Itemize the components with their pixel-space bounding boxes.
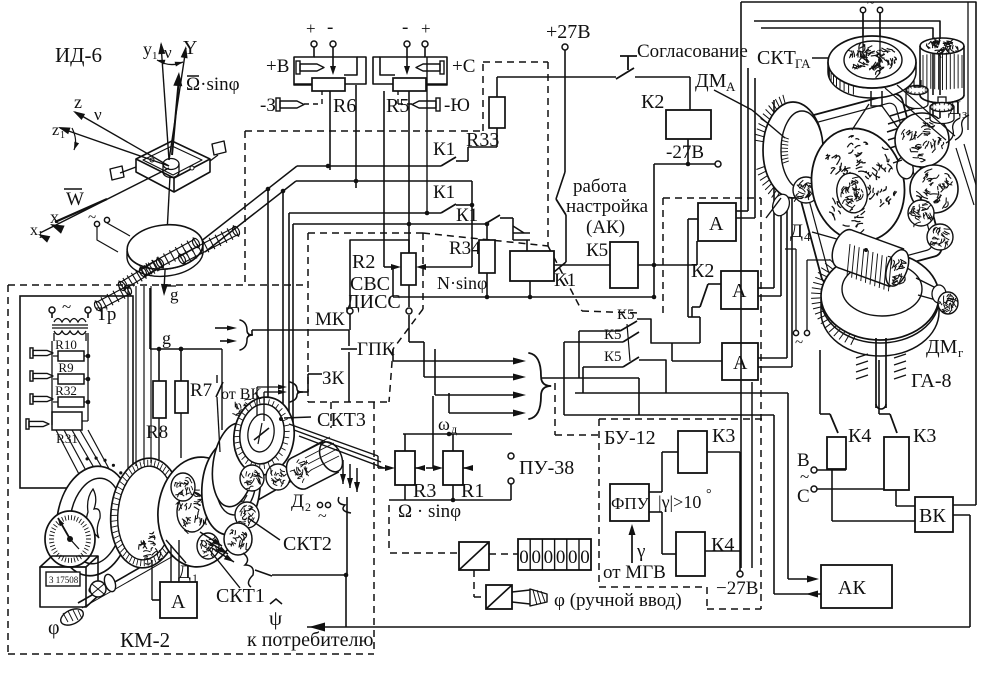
svg-text:ω: ω bbox=[438, 414, 450, 434]
svg-text:АК: АК bbox=[838, 577, 866, 599]
svg-text:+В: +В bbox=[266, 56, 289, 77]
svg-text:φ: φ bbox=[48, 617, 60, 639]
svg-text:x: x bbox=[30, 222, 38, 239]
svg-text:ЗК: ЗК bbox=[322, 368, 345, 389]
svg-text:Д: Д bbox=[948, 98, 961, 119]
svg-text:Д: Д bbox=[291, 491, 304, 512]
svg-text:Y: Y bbox=[183, 37, 197, 59]
svg-text:з: з bbox=[962, 106, 967, 121]
svg-text:+: + bbox=[306, 19, 316, 38]
svg-text:z: z bbox=[74, 92, 82, 112]
svg-text:2: 2 bbox=[305, 500, 311, 514]
svg-text:СКТ2: СКТ2 bbox=[283, 533, 332, 555]
svg-text:0: 0 bbox=[556, 547, 566, 568]
svg-text:ГПК: ГПК bbox=[357, 339, 395, 360]
svg-text:работа: работа bbox=[573, 176, 627, 197]
svg-text:А: А bbox=[732, 280, 747, 302]
svg-text:1: 1 bbox=[38, 230, 43, 241]
svg-text:−27В: −27В bbox=[716, 578, 758, 599]
svg-text:g: g bbox=[162, 328, 171, 348]
svg-text:КМ-2: КМ-2 bbox=[120, 628, 170, 652]
svg-text:W: W bbox=[66, 189, 84, 210]
svg-text:R10: R10 bbox=[55, 337, 77, 352]
svg-text:g: g bbox=[170, 285, 179, 304]
svg-text:R1: R1 bbox=[461, 480, 484, 502]
svg-text:N·sinφ: N·sinφ bbox=[437, 273, 487, 293]
svg-text:φ (ручной ввод): φ (ручной ввод) bbox=[554, 590, 682, 611]
svg-text:К2: К2 bbox=[691, 260, 714, 282]
svg-text:ГА: ГА bbox=[795, 56, 811, 71]
svg-text:R3: R3 bbox=[413, 480, 436, 502]
svg-text:Согласование: Согласование bbox=[637, 41, 748, 62]
svg-text:x: x bbox=[50, 207, 59, 227]
svg-text:R8: R8 bbox=[146, 422, 168, 443]
svg-text:СКТ3: СКТ3 bbox=[317, 409, 366, 431]
svg-text:К4: К4 bbox=[848, 425, 871, 447]
svg-text:К3: К3 bbox=[712, 425, 735, 447]
svg-text:К1: К1 bbox=[433, 139, 455, 160]
svg-text:ГА-8: ГА-8 bbox=[911, 370, 952, 392]
svg-text:ИД-6: ИД-6 bbox=[55, 43, 102, 67]
svg-text:y: y bbox=[143, 39, 152, 59]
svg-text:0: 0 bbox=[544, 547, 554, 568]
svg-text:+С: +С bbox=[452, 56, 475, 77]
svg-text:-: - bbox=[402, 17, 408, 38]
svg-text:°: ° bbox=[706, 487, 712, 502]
svg-text:ДМ: ДМ bbox=[695, 70, 727, 92]
svg-text:С: С bbox=[797, 486, 810, 507]
svg-text:А: А bbox=[726, 79, 736, 94]
svg-text:от МГВ: от МГВ bbox=[603, 562, 666, 583]
svg-text:~: ~ bbox=[318, 508, 327, 525]
svg-text:Д: Д bbox=[790, 221, 803, 242]
svg-text:ВК: ВК bbox=[919, 505, 946, 527]
svg-text:(АК): (АК) bbox=[586, 217, 625, 238]
svg-text:R6: R6 bbox=[333, 95, 356, 117]
svg-text:А: А bbox=[171, 591, 186, 613]
svg-text:К1: К1 bbox=[456, 205, 478, 226]
svg-text:ν: ν bbox=[164, 43, 172, 62]
svg-text:Ω·sinφ: Ω·sinφ bbox=[186, 74, 240, 95]
svg-text:ν: ν bbox=[94, 105, 102, 124]
svg-text:К5: К5 bbox=[586, 240, 608, 261]
svg-text:4: 4 bbox=[804, 229, 811, 244]
svg-text:ψ: ψ bbox=[269, 606, 282, 630]
svg-text:3 17508: 3 17508 bbox=[49, 575, 79, 585]
svg-text:К5: К5 bbox=[604, 349, 622, 365]
svg-text:К1: К1 bbox=[433, 182, 455, 203]
svg-text:к потребителю: к потребителю bbox=[247, 629, 373, 651]
svg-text:СКТ: СКТ bbox=[757, 47, 796, 69]
svg-text:R2: R2 bbox=[352, 251, 375, 273]
svg-text:R32: R32 bbox=[55, 383, 77, 398]
svg-text:-: - bbox=[327, 17, 333, 38]
svg-text:от ВК: от ВК bbox=[221, 386, 261, 403]
svg-text:К4: К4 bbox=[711, 534, 734, 556]
svg-text:К2: К2 bbox=[641, 91, 664, 113]
svg-text:К3: К3 bbox=[913, 425, 936, 447]
svg-text:-27В: -27В bbox=[666, 142, 704, 163]
svg-text:Ω · sinφ: Ω · sinφ bbox=[398, 501, 461, 522]
svg-text:~: ~ bbox=[867, 0, 875, 11]
svg-text:0: 0 bbox=[580, 547, 590, 568]
svg-text:|γ|>10: |γ|>10 bbox=[658, 492, 701, 512]
svg-text:1: 1 bbox=[152, 50, 158, 62]
svg-text:-Ю: -Ю bbox=[444, 95, 470, 116]
svg-text:г: г bbox=[958, 345, 963, 360]
svg-text:СКТ1: СКТ1 bbox=[216, 585, 265, 607]
svg-text:R7: R7 bbox=[190, 380, 212, 401]
svg-text:настройка: настройка bbox=[566, 196, 649, 217]
svg-text:γ: γ bbox=[636, 541, 645, 562]
svg-text:ДМ: ДМ bbox=[926, 336, 958, 358]
svg-text:1: 1 bbox=[60, 130, 65, 141]
svg-text:Д: Д bbox=[178, 562, 191, 583]
svg-text:0: 0 bbox=[568, 547, 578, 568]
svg-text:А: А bbox=[709, 213, 724, 235]
svg-text:R34: R34 bbox=[449, 238, 481, 259]
svg-text:0: 0 bbox=[531, 547, 541, 568]
svg-text:ФПУ: ФПУ bbox=[611, 494, 650, 513]
svg-text:~: ~ bbox=[800, 467, 809, 486]
svg-text:R9: R9 bbox=[58, 360, 73, 375]
svg-text:-З: -З bbox=[260, 95, 276, 116]
svg-text:ПУ-38: ПУ-38 bbox=[519, 457, 574, 479]
svg-text:БУ-12: БУ-12 bbox=[604, 427, 656, 449]
svg-text:+: + bbox=[421, 19, 431, 38]
svg-text:R5: R5 bbox=[386, 95, 409, 117]
svg-text:МК: МК bbox=[315, 309, 345, 330]
svg-text:~: ~ bbox=[795, 335, 803, 351]
svg-text:К1: К1 bbox=[554, 270, 576, 291]
svg-text:К5: К5 bbox=[617, 307, 635, 323]
svg-text:z: z bbox=[52, 122, 59, 139]
svg-text:К5: К5 bbox=[604, 327, 622, 343]
svg-text:0: 0 bbox=[519, 547, 529, 568]
svg-text:~: ~ bbox=[62, 297, 71, 316]
svg-text:+27В: +27В bbox=[546, 21, 591, 43]
svg-text:~: ~ bbox=[88, 210, 96, 226]
